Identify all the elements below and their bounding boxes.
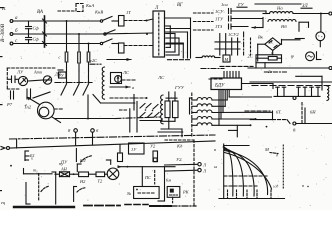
curve 5	[225, 153, 272, 190]
capacitor C2	[26, 34, 40, 44]
terminal 8 mid	[68, 128, 77, 146]
top right feeder line	[255, 3, 301, 5]
rotor resistor row 1	[192, 90, 227, 101]
svg-text:1СУ2: 1СУ2	[228, 32, 239, 37]
phase A input terminal	[10, 20, 13, 23]
svg-text:1сн: 1сн	[221, 2, 228, 7]
svg-text:в: в	[214, 147, 216, 152]
meter PV	[316, 32, 325, 47]
contact KL1 phase A	[100, 17, 118, 23]
svg-text:Т2: Т2	[98, 179, 103, 184]
dashed pushbutton box KnA	[58, 4, 83, 12]
diode bridge 1X	[265, 38, 281, 51]
bus y82 right	[250, 81, 332, 83]
graph tick verticals	[228, 190, 272, 199]
contact diag 3	[83, 71, 89, 95]
squiggle	[81, 156, 92, 162]
dashes below EK	[172, 197, 174, 202]
label PS	[144, 170, 155, 184]
svg-text:№: №	[126, 191, 131, 196]
wire phase A	[13, 20, 44, 22]
dash right of relay	[122, 79, 135, 81]
terminal b mid	[91, 128, 99, 145]
svg-text:ГУУ: ГУУ	[174, 85, 185, 90]
graph dashed level line	[224, 175, 269, 177]
small circle on bus	[293, 97, 296, 100]
svg-text:1ТУ: 1ТУ	[215, 17, 224, 22]
dashed vertical with squiggle	[39, 174, 50, 201]
vertical dashed 6N	[301, 103, 303, 125]
vertical from bus	[141, 167, 143, 187]
arrow wire top	[107, 58, 131, 61]
svg-text:1ТЗ: 1ТЗ	[215, 24, 223, 29]
left dashed trigger box	[7, 68, 56, 89]
box bottom wires	[256, 63, 265, 68]
svg-text:БДУ: БДУ	[214, 84, 225, 89]
scan specks left edge	[0, 7, 4, 191]
dash 6R	[209, 78, 224, 80]
lamp crossed box	[55, 172, 70, 177]
svg-text:Кд: Кд	[176, 144, 183, 149]
specks bottom right	[302, 185, 308, 187]
node right	[266, 126, 268, 128]
small square on bus	[153, 158, 157, 162]
wires below rails	[59, 149, 76, 167]
svg-text:РК: РК	[182, 190, 190, 195]
wire drop A	[66, 21, 68, 52]
label M small box	[223, 55, 230, 62]
svg-text:Н2: Н2	[79, 179, 86, 184]
svg-text:У2.: У2.	[176, 157, 183, 162]
node	[146, 97, 148, 99]
wire y119	[250, 111, 272, 120]
lower mesh steps	[161, 98, 182, 129]
inductor Nb	[268, 20, 296, 22]
resistor N2	[70, 172, 89, 184]
right coil squiggle	[327, 86, 329, 100]
dashed box v	[193, 140, 195, 205]
node on bus	[66, 82, 68, 84]
graph dashed level line 2	[224, 185, 258, 187]
left vertical	[26, 183, 30, 205]
rotor resistor row 3	[192, 90, 272, 113]
circuit breaker VA	[37, 10, 47, 47]
node	[146, 20, 148, 22]
svg-text:1Х: 1Х	[269, 41, 274, 45]
contact 1TU	[229, 16, 263, 21]
contact KL2 phase B	[104, 30, 115, 35]
svg-text:ГУ: ГУ	[237, 2, 245, 7]
svg-text:АН: АН	[60, 167, 68, 172]
svg-text:В~380В: В~380В	[0, 23, 6, 42]
dash-dot seg	[90, 63, 101, 65]
graph dotted right boundary	[282, 145, 284, 188]
transistor VT2	[43, 76, 51, 84]
bridge left wire	[258, 44, 265, 61]
svg-text:РУ: РУ	[58, 74, 64, 78]
bridge right wire	[281, 39, 300, 44]
brake coil box	[256, 55, 282, 63]
relay box EK	[167, 187, 180, 198]
svg-text:БЛ: БЛ	[79, 158, 87, 163]
terminal 8	[287, 120, 332, 133]
vertical to wire	[304, 108, 306, 124]
coil KLL	[202, 56, 215, 58]
solid rail lower	[10, 141, 216, 148]
phase C input terminal	[10, 42, 13, 45]
brake box	[134, 187, 160, 199]
reactor block L	[153, 6, 165, 57]
svg-text:У2: У2	[150, 144, 156, 149]
transistor VT1	[18, 76, 27, 85]
svg-text:ЛУ: ЛУ	[16, 70, 24, 75]
svg-text:г: г	[25, 102, 27, 107]
resistor vert right	[153, 151, 158, 162]
svg-text:Нб: Нб	[280, 24, 287, 29]
wire between transistors	[28, 80, 44, 81]
svg-text:↓сд: ↓сд	[273, 184, 279, 189]
terminal wire L2	[165, 168, 208, 173]
graph axis vertical	[223, 144, 225, 199]
dash-dot 6TU-6L	[201, 68, 224, 70]
wire dashed C to L box	[124, 45, 153, 47]
wire dashed to L box	[124, 20, 146, 22]
dash-dot bus left mid	[55, 82, 92, 84]
squiggle 6y	[77, 188, 85, 192]
svg-text:6Н: 6Н	[310, 110, 316, 115]
relay box RU	[58, 72, 66, 78]
rotor resistor row 5	[192, 90, 252, 127]
left bracket of rows	[190, 98, 193, 114]
bottom bus segment 5	[171, 205, 196, 207]
svg-text:6Т.: 6Т.	[276, 110, 282, 115]
wire stub left	[58, 69, 63, 71]
svg-text:1Т: 1Т	[126, 10, 131, 15]
resistor vert left	[118, 145, 123, 162]
right mid wires 6T 6N	[245, 110, 270, 112]
mesh wire 1	[166, 26, 171, 47]
graph n0 line	[224, 145, 249, 147]
svg-text:ВА: ВА	[37, 10, 44, 15]
vertical line right	[158, 167, 165, 201]
contact row right	[276, 87, 320, 96]
dash-dot right of node	[115, 117, 160, 119]
wire Na left	[263, 13, 270, 15]
curve 1	[225, 148, 233, 197]
capacitor below 2	[27, 89, 31, 99]
wire into L box	[147, 19, 154, 21]
capacitor C1	[26, 21, 40, 34]
svg-text:6м: 6м	[166, 178, 171, 183]
small grid below labels	[215, 34, 240, 55]
label ZL underlined	[301, 4, 312, 9]
dash wire right of machine	[54, 108, 64, 110]
bottom-left bracket x	[25, 156, 33, 161]
node	[73, 173, 75, 175]
terminal right y68	[329, 67, 332, 70]
arrow wire a	[110, 85, 135, 90]
label M arrow	[264, 147, 278, 158]
tachogenerator machine	[27, 97, 54, 119]
contact 1TZ	[229, 24, 249, 29]
dashed vertical	[250, 38, 252, 55]
bottom bus segment 3	[125, 204, 148, 206]
lower contact diag	[93, 95, 135, 104]
mesh bottom bus	[168, 59, 191, 61]
contact 1SU	[229, 9, 267, 14]
fuse F1	[65, 52, 68, 71]
phase B input terminal	[10, 33, 13, 36]
ammeter PA	[306, 52, 315, 61]
wire phase A after breaker	[46, 20, 100, 22]
diagonal wire	[33, 92, 50, 98]
svg-text:ВГ: ВГ	[177, 3, 183, 8]
fuse F3	[87, 52, 90, 71]
wire B into L box	[100, 33, 153, 34]
capacitor below	[11, 91, 14, 99]
long wire row top	[229, 90, 271, 98]
wire L out 3	[165, 44, 184, 58]
curve 3	[225, 150, 255, 197]
contact cluster	[140, 104, 162, 121]
left rail terminal	[1, 147, 10, 150]
wire phase B after breaker	[46, 33, 100, 35]
bracket BL	[77, 158, 86, 172]
relay box 1U	[129, 143, 145, 154]
bottom bus segment 1	[14, 206, 74, 208]
bus with arrow	[118, 165, 176, 168]
dashed rows left part	[194, 13, 214, 30]
wire drop C	[88, 44, 90, 53]
dash wire	[110, 97, 146, 99]
wire phase B	[13, 33, 44, 35]
dashed box h	[165, 139, 194, 141]
dash-dot rail upper	[10, 135, 216, 139]
rail connect	[16, 139, 18, 148]
inductor Na	[270, 12, 294, 14]
resistor rect vert 1	[165, 101, 170, 118]
node drop A	[66, 20, 68, 22]
svg-text:КнВ: КнВ	[94, 10, 103, 15]
motor M circle	[105, 168, 119, 180]
dashes to terminal 8	[273, 119, 288, 121]
resistor 1T on phase A	[119, 16, 125, 27]
svg-text:с: с	[59, 55, 61, 60]
bracket under Nb	[299, 22, 309, 31]
vertical right	[133, 95, 135, 111]
svg-text:Р7: Р7	[6, 102, 13, 107]
svg-text:ЛС: ЛС	[157, 75, 165, 80]
bottom bus segment 2	[84, 205, 120, 207]
contact diag 1	[61, 71, 67, 95]
svg-text:И.: И.	[1, 6, 6, 11]
wire phase C	[13, 43, 44, 45]
capacitor pair in box	[9, 76, 19, 83]
terminal wire L1	[165, 163, 208, 168]
corner	[106, 160, 110, 164]
step wire to coils	[252, 18, 263, 29]
bus y96	[274, 95, 320, 97]
bracket below	[74, 187, 77, 202]
wire down from rows	[229, 125, 238, 136]
relay RS circle	[111, 73, 122, 84]
dashed enclosure edge	[191, 93, 193, 137]
long bus y68	[248, 67, 329, 69]
node top wire	[55, 118, 115, 120]
svg-text:2С: 2С	[248, 54, 254, 59]
resistor rect vert 2	[173, 101, 179, 118]
wire to voltmeter	[320, 14, 322, 32]
svg-text:Вк: Вк	[258, 35, 264, 40]
svg-text:ЛС: ЛС	[122, 70, 129, 75]
contact KL3 phase C	[100, 39, 118, 45]
rotor resistor row 2	[192, 90, 225, 107]
node on bus	[78, 82, 80, 84]
mesh wire 2	[166, 34, 175, 53]
svg-text:М: М	[224, 57, 229, 62]
comb above box	[224, 72, 239, 79]
svg-text:Сф: Сф	[33, 26, 40, 31]
wire L out 1	[165, 18, 191, 58]
dash-dot vertical	[243, 32, 245, 55]
terminal top right	[329, 12, 332, 15]
node on bus	[88, 82, 90, 84]
label GU underlined	[237, 2, 247, 7]
node drop C	[88, 43, 90, 45]
wire coil KLL	[196, 57, 220, 59]
contact diag 2	[74, 71, 80, 95]
dash segment	[264, 71, 288, 73]
svg-text:х: х	[30, 156, 33, 161]
controller box BDU	[211, 78, 242, 90]
mesh cross h	[166, 29, 191, 44]
mesh wire 3	[166, 38, 179, 55]
svg-text:т₃: т₃	[33, 168, 38, 173]
dashes above comb	[220, 65, 253, 67]
node on phase B	[146, 33, 148, 35]
bridge bottom wire	[272, 50, 274, 54]
node	[320, 13, 322, 15]
wire from Na	[293, 13, 329, 15]
contact t3	[24, 168, 53, 175]
small comp row above rails	[120, 102, 138, 133]
resistor 2T on phase C	[119, 43, 125, 53]
svg-text:КнА: КнА	[85, 3, 94, 8]
bus y85 dashes	[252, 85, 332, 87]
svg-text:ПС: ПС	[144, 175, 151, 180]
rotor resistor row 4	[192, 90, 257, 121]
graph axis horizontal	[219, 198, 285, 200]
resistor T2	[89, 172, 105, 184]
wire from box right	[242, 84, 274, 89]
bottom bus segment 4	[150, 205, 171, 207]
lower mesh left loop column	[161, 95, 163, 124]
curve 2	[225, 149, 244, 197]
node drop B	[78, 33, 80, 35]
svg-text:д: д	[276, 153, 278, 158]
svg-text:ПУ: ПУ	[60, 160, 68, 165]
svg-text:На: На	[276, 6, 283, 11]
svg-text:1СУ: 1СУ	[215, 9, 224, 14]
field winding OV	[102, 67, 104, 99]
short dash	[295, 38, 304, 40]
lower mesh verticals	[169, 92, 175, 101]
lower mesh bottom	[158, 129, 183, 137]
wire drop B	[78, 34, 80, 52]
fuse F2	[78, 52, 81, 71]
vertical x88 to wire	[87, 95, 89, 119]
curve 4	[225, 151, 268, 195]
node	[10, 165, 12, 167]
wire phase C after breaker	[46, 43, 100, 45]
right bracket	[52, 172, 56, 204]
wire y76	[296, 76, 322, 90]
bracket right of PA	[317, 52, 321, 60]
wire L out 2	[165, 32, 188, 58]
bracket B1	[25, 151, 35, 160]
diagonal from machine	[52, 117, 61, 123]
svg-text:у2С: у2С	[89, 58, 97, 63]
svg-text:Сф: Сф	[33, 37, 40, 42]
